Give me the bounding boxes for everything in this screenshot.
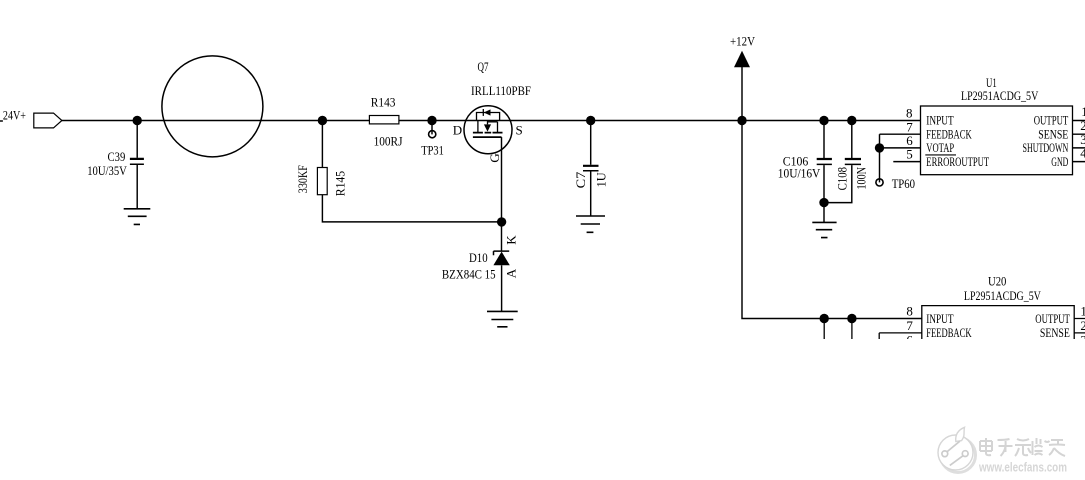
svg-text:4: 4 <box>1080 146 1085 161</box>
svg-text:C7: C7 <box>573 171 588 188</box>
svg-text:R145: R145 <box>333 171 348 196</box>
svg-text:2: 2 <box>1080 318 1085 333</box>
svg-text:OUTPUT: OUTPUT <box>1035 311 1070 326</box>
svg-text:100N: 100N <box>854 167 869 190</box>
svg-text:GND: GND <box>1051 154 1068 169</box>
svg-text:BZX84C 15: BZX84C 15 <box>442 266 496 281</box>
svg-text:100RJ: 100RJ <box>374 133 403 148</box>
svg-text:LP2951ACDG_5V: LP2951ACDG_5V <box>961 88 1039 103</box>
svg-text:TP60: TP60 <box>892 176 915 191</box>
svg-text:A: A <box>504 268 519 278</box>
svg-text:1: 1 <box>1080 304 1085 319</box>
svg-text:ERROROUTPUT: ERROROUTPUT <box>926 154 989 169</box>
svg-text:1U: 1U <box>594 172 609 188</box>
svg-text:5: 5 <box>906 147 913 162</box>
svg-text:INPUT: INPUT <box>926 311 953 326</box>
svg-text:330KF: 330KF <box>295 165 310 193</box>
svg-text:FEEDBACK: FEEDBACK <box>926 325 972 340</box>
svg-text:10U/35V: 10U/35V <box>87 163 127 178</box>
svg-text:10U/16V: 10U/16V <box>778 165 821 180</box>
svg-text:www.elecfans.com: www.elecfans.com <box>978 461 1067 475</box>
svg-text:SENSE: SENSE <box>1040 325 1070 340</box>
svg-text:+12V: +12V <box>730 33 756 48</box>
svg-text:G: G <box>487 153 502 162</box>
svg-text:C39: C39 <box>108 149 126 164</box>
svg-text:2: 2 <box>1080 118 1085 133</box>
svg-text:R143: R143 <box>371 95 396 110</box>
svg-text:D: D <box>453 123 462 138</box>
svg-text:U20: U20 <box>988 273 1006 288</box>
svg-text:8: 8 <box>906 304 913 319</box>
svg-text:TP31: TP31 <box>421 143 444 158</box>
svg-text:K: K <box>504 235 519 245</box>
svg-text:D10: D10 <box>469 250 488 265</box>
svg-text:1: 1 <box>1081 104 1085 119</box>
svg-text:IRLL110PBF: IRLL110PBF <box>471 83 531 98</box>
svg-text:24V+: 24V+ <box>3 108 26 123</box>
svg-text:3: 3 <box>1080 132 1085 147</box>
svg-text:7: 7 <box>906 318 913 333</box>
svg-text:Q7: Q7 <box>478 59 489 74</box>
svg-text:S: S <box>516 123 523 138</box>
svg-text:LP2951ACDG_5V: LP2951ACDG_5V <box>964 288 1041 303</box>
svg-text:C108: C108 <box>835 167 850 190</box>
